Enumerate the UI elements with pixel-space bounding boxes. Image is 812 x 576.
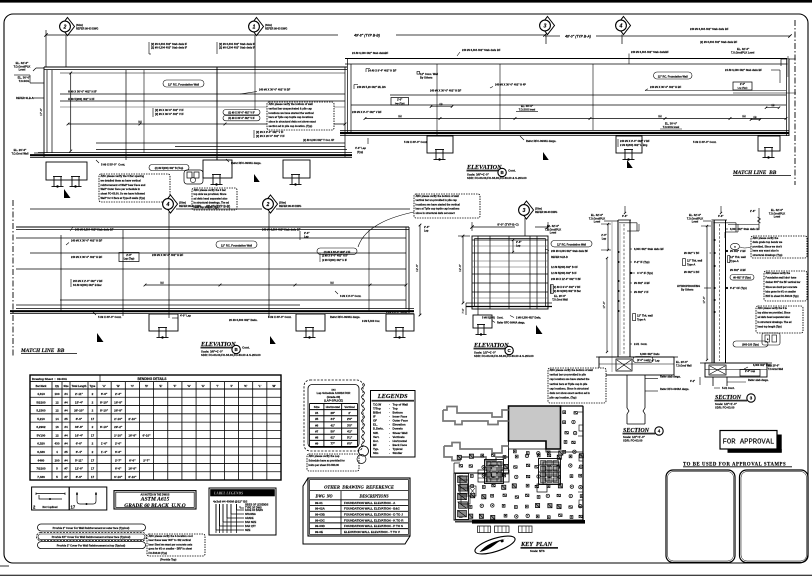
- revision cloud right of lap schedule: [362, 383, 365, 447]
- section4 wall verticals: [617, 220, 619, 357]
- footing M-3: [386, 314, 414, 331]
- svg-text:Since we donti per concrete: Since we donti per concrete: [766, 286, 798, 289]
- svg-text:#4: #4: [64, 409, 68, 413]
- svg-text:6,304 402" Stab dwls BF: 6,304 402" Stab dwls BF: [634, 247, 664, 251]
- svg-text:2 #9 6(200) 402" H Brg: 2 #9 6(200) 402" H Brg: [620, 143, 648, 147]
- svg-text:Sim: Sim: [373, 451, 379, 455]
- wall B2 ticked dim line: [365, 118, 786, 120]
- stamp box left: [666, 470, 735, 563]
- svg-text:5 #9 X 30'-0" Cont.: 5 #9 X 30'-0" Cont.: [268, 315, 292, 319]
- svg-text:BAR SIZE: BAR SIZE: [245, 521, 257, 524]
- svg-text:8'-6": 8'-6": [76, 417, 83, 421]
- svg-text:6,300 402" Dwls: 6,300 402" Dwls: [640, 352, 660, 356]
- svg-text:2'-6": 2'-6": [115, 442, 122, 446]
- svg-text:(Provide Typ): (Provide Typ): [160, 558, 177, 562]
- grid marker 6 mid: [164, 195, 178, 213]
- svg-text:0'-6": 0'-6": [622, 215, 628, 218]
- svg-text:29'-2": 29'-2": [114, 425, 123, 429]
- key plan feature right: [543, 462, 559, 484]
- svg-text:Level: Level: [19, 68, 26, 72]
- svg-text:vertical bar un-provided in pi: vertical bar un-provided in pile: [550, 374, 587, 377]
- svg-text:BENDING DETAILS: BENDING DETAILS: [138, 377, 167, 381]
- svg-text:41": 41": [330, 423, 335, 427]
- svg-text:240 #9 X 30'-0" 402" H BF: 240 #9 X 30'-0" 402" H BF: [430, 89, 462, 93]
- svg-text:12" Thk. wall: 12" Thk. wall: [637, 314, 653, 318]
- svg-text:locations we have started the: locations we have started the vertical: [416, 203, 461, 206]
- elevC footing: [473, 315, 492, 328]
- key plan feature left small: [460, 476, 468, 494]
- svg-text:4'-0" Lap: 4'-0" Lap: [180, 314, 191, 318]
- svg-text:FOUNDATION WALL ELEVATION - P: FOUNDATION WALL ELEVATION - P TO S: [344, 524, 403, 528]
- svg-text:'M': 'M': [272, 384, 276, 388]
- svg-text:[2] #9 6,304 402" Stab dwls IF: [2] #9 6,304 402" Stab dwls IF: [151, 46, 188, 50]
- svg-text:ABC please verify the 0-locati: ABC please verify the 0-location coot: [149, 535, 193, 538]
- svg-text:FO-503.00 (Typ): FO-503.00 (Typ): [149, 552, 168, 555]
- svg-text:4: 4: [619, 24, 623, 30]
- svg-text:-: -: [389, 451, 390, 455]
- svg-text:dwls not show exact section ad: dwls not show exact section ad in: [550, 392, 591, 395]
- svg-text:2'-0": 2'-0": [601, 234, 607, 237]
- svg-text:17: 17: [91, 475, 95, 479]
- svg-text:GRADE: GRADE: [245, 517, 254, 520]
- wall B1 lower rebar lines: [96, 142, 345, 144]
- svg-text:17: 17: [91, 417, 95, 421]
- svg-text:49'-0" (TYP B-B): 49'-0" (TYP B-B): [206, 205, 230, 209]
- svg-text:Level: Level: [774, 216, 781, 219]
- svg-text:26'-10": 26'-10": [74, 409, 84, 413]
- svg-text:DESCRIPTIONS: DESCRIPTIONS: [358, 493, 389, 498]
- svg-text:3: 3: [523, 208, 526, 214]
- lap schedule grid: [310, 403, 358, 405]
- stamp box right: [740, 470, 809, 563]
- section3 small box sketch: [762, 333, 780, 345]
- svg-text:EL. 32'-6": EL. 32'-6": [16, 61, 29, 65]
- svg-text:section ad in pile cap locatio: section ad in pile cap location. (Typ): [269, 124, 313, 128]
- svg-text:49'-8" (TYP B-B): 49'-8" (TYP B-B): [353, 34, 381, 38]
- svg-text:2'-7": 2'-7": [143, 458, 150, 462]
- svg-text:Refer RFC-0946A dwgs.: Refer RFC-0946A dwgs.: [231, 161, 261, 165]
- footing B2-3: [758, 136, 780, 151]
- lap schedule ABC note below: [307, 454, 359, 471]
- svg-text:8'-6": 8'-6": [76, 475, 83, 479]
- svg-text:EL. 32'-6": EL. 32'-6": [689, 213, 702, 217]
- svg-text:EL. 30'-0": EL. 30'-0": [521, 104, 534, 108]
- svg-text:REFER 99-03 DWG: REFER 99-03 DWG: [279, 205, 301, 208]
- svg-text:5 #9 X 30'-0" Cont.: 5 #9 X 30'-0" Cont.: [404, 140, 428, 144]
- footing B1-3: [283, 160, 310, 178]
- svg-text:ad dwls head separated also: ad dwls head separated also: [194, 197, 228, 200]
- top dimension line 49'-8 TYP B-B: [46, 34, 338, 36]
- svg-text:7,436: 7,436: [37, 475, 45, 479]
- svg-text:12" RC. Foundation Wall: 12" RC. Foundation Wall: [168, 82, 199, 86]
- svg-text:6'-4": 6'-4": [76, 450, 83, 454]
- svg-text:Drawing Sheet : 99-03A: Drawing Sheet : 99-03A: [32, 377, 68, 381]
- svg-text:2'-0": 2'-0": [397, 99, 402, 102]
- svg-text:LABEL LEGENDS: LABEL LEGENDS: [213, 492, 243, 496]
- svg-text:(2) #9 6,304 402" Stab dwls BF: (2) #9 6,304 402" Stab dwls BF: [700, 40, 738, 44]
- svg-text:240 #9 X 30'-0" 402" H BF: 240 #9 X 30'-0" 402" H BF: [71, 239, 103, 243]
- ASTM A615 box: [114, 491, 196, 509]
- svg-text:Lap: Lap: [304, 234, 309, 238]
- svg-text:24 #9 6,400 402" Stab dwlsBF: 24 #9 6,400 402" Stab dwlsBF: [352, 51, 389, 55]
- svg-text:240 #9 6,304 402" Stab dwls BF: 240 #9 6,304 402" Stab dwls BF: [75, 228, 114, 232]
- svg-text:240 #9 X 9'-4" 402" V BF: 240 #9 X 9'-4" 402" V BF: [352, 110, 382, 114]
- svg-text:Qty: Qty: [55, 385, 60, 388]
- svg-text:dwlser 304" the BF vertical ba: dwlser 304" the BF vertical bar: [766, 281, 801, 284]
- for approval box: [720, 431, 777, 450]
- key plan outline upper right: [509, 406, 584, 452]
- label legends leader fan: [215, 504, 217, 533]
- svg-text:6'-10": 6'-10": [128, 475, 137, 479]
- svg-text:SIDES OF LEGENDS: SIDES OF LEGENDS: [245, 504, 269, 507]
- svg-text:FOUNDATION WALL ELEVATION - K: FOUNDATION WALL ELEVATION - K TO R: [344, 518, 404, 522]
- svg-text:5,2300: 5,2300: [36, 409, 46, 413]
- svg-text:EL. 32'-6": EL. 32'-6": [737, 47, 750, 51]
- svg-text:5/2100: 5/2100: [36, 400, 46, 404]
- section cut triangle b2: [627, 160, 633, 168]
- svg-text:6 #9 X 9'-0" Cont.: 6 #9 X 9'-0" Cont.: [340, 294, 361, 298]
- svg-text:Total Length: Total Length: [72, 385, 87, 388]
- svg-text:bars at Tpile cap toptie cap l: bars at Tpile cap toptie cap locations: [269, 115, 314, 119]
- svg-text:17'-0": 17'-0": [702, 296, 706, 303]
- wall M horizontal rebar lines: [16, 237, 406, 239]
- section4 2-0 lap oval: [633, 357, 653, 363]
- svg-text:6460: 6460: [38, 458, 45, 462]
- svg-text:12'-0": 12'-0": [458, 264, 462, 272]
- svg-text:7'-0": 7'-0": [461, 308, 465, 313]
- section4 left dim 17: [606, 258, 608, 352]
- elevC inner horizontals: [472, 239, 548, 241]
- svg-text:240 #9 X 30'-0" 402" H BF: 240 #9 X 30'-0" 402" H BF: [259, 88, 291, 92]
- section3 ABC note 1: [751, 236, 807, 258]
- svg-text:bear these wear 304" to 402 ve: bear these wear 304" to 402 vertical: [149, 539, 192, 542]
- svg-text:SPACING: SPACING: [245, 513, 256, 516]
- svg-text:Lap Schedule ACI318 FOR: Lap Schedule ACI318 FOR: [317, 391, 351, 395]
- svg-text:2'-10": 2'-10": [114, 417, 123, 421]
- svg-text:6'-2" OF (Typ): 6'-2" OF (Typ): [730, 286, 747, 290]
- section cut triangle m1: [97, 333, 103, 342]
- svg-text:2'-0": 2'-0": [304, 231, 310, 235]
- key plan dock boxes: [478, 526, 491, 533]
- svg-text:By Others: By Others: [681, 288, 694, 292]
- svg-text:12" RC. Foundation Wall: 12" RC. Foundation Wall: [658, 74, 688, 78]
- svg-text:Wall* Outer Face per schedule: Wall* Outer Face per schedule in: [101, 187, 141, 191]
- section4 wall anchor dots: [618, 251, 620, 253]
- svg-text:FOUNDATION WALL ELEVATION - A: FOUNDATION WALL ELEVATION - A: [344, 501, 396, 505]
- svg-text:4'2": 4'2": [347, 429, 353, 433]
- svg-text:12: 12: [55, 400, 59, 404]
- svg-text:[2] #9 6,304 402" Stab dwls IF: [2] #9 6,304 402" Stab dwls IF: [219, 46, 256, 50]
- svg-text:BRF in sheet FO-503.00 (Typ): BRF in sheet FO-503.00 (Typ): [766, 295, 799, 298]
- svg-text:EL. 32'-6": EL. 32'-6": [547, 224, 560, 228]
- svg-text:2-#1 Cont.: 2-#1 Cont.: [634, 342, 648, 346]
- svg-text:61": 61": [330, 436, 335, 440]
- wall M oval callout cluster: [317, 248, 357, 254]
- svg-text:Type: Type: [90, 385, 96, 388]
- section4 extension grey line: [611, 221, 613, 372]
- svg-text:ABC please verify the bottom o: ABC please verify the bottom of wall: [416, 195, 460, 198]
- svg-text:2'-6": 2'-6": [750, 210, 756, 213]
- svg-text:24 #9 6,400 402" Stab dwls BF: 24 #9 6,400 402" Stab dwls BF: [725, 68, 762, 72]
- svg-text:1'-6": 1'-6": [101, 442, 108, 446]
- svg-text:T.O.Grnd Wall: T.O.Grnd Wall: [768, 369, 783, 371]
- svg-text:17'-0": 17'-0": [602, 301, 606, 308]
- svg-text:Vertical: Vertical: [344, 405, 354, 409]
- svg-text:Refer RFC-0946A dwgs.: Refer RFC-0946A dwgs.: [526, 139, 556, 143]
- svg-text:Size: Size: [314, 405, 320, 409]
- svg-text:#4: #4: [64, 400, 68, 404]
- svg-text:Provide 2" Cover For Wall Rein: Provide 2" Cover For Wall Reinforcement …: [53, 526, 130, 530]
- svg-text:5 #9 X 30'-0" Cont.: 5 #9 X 30'-0" Cont.: [98, 315, 122, 319]
- svg-text:240 #9 X 30'-0" 402" H BF: 240 #9 X 30'-0" 402" H BF: [650, 85, 682, 89]
- other drawing reference 3d box: [303, 478, 410, 544]
- svg-text:4'-0" Lap: 4'-0" Lap: [355, 146, 366, 150]
- svg-text:'J': 'J': [230, 384, 233, 388]
- svg-text:cap locations we have started: cap locations we have started the: [550, 378, 590, 381]
- section cut triangle b1: [543, 152, 549, 160]
- svg-text:T.O.Grnd/PLK Level: T.O.Grnd/PLK Level: [731, 52, 755, 55]
- label legends box: [209, 488, 276, 535]
- svg-text:5 #9 X 30'-0" Cont.: 5 #9 X 30'-0" Cont.: [693, 140, 717, 144]
- svg-text:#9: #9: [315, 442, 319, 446]
- svg-text:goes for #2 or smaller - BRF i: goes for #2 or smaller - BRF in sheet: [149, 548, 193, 551]
- cover note 3: [38, 542, 146, 549]
- key plan dark left strip: [456, 474, 469, 520]
- footing B1-1: [46, 162, 87, 180]
- svg-text:SDR: FO-63.00,FO-63.00,FO-63.0: SDR: FO-63.00,FO-63.00,FO-63.00 & S-203.…: [201, 353, 261, 357]
- svg-text:Provide 3/4" Cover For Wall Re: Provide 3/4" Cover For Wall Reinforcemen…: [52, 535, 131, 539]
- svg-text:6,436: 6,436: [37, 450, 45, 454]
- svg-text:6,320: 6,320: [37, 442, 45, 446]
- svg-text:SDR: FO-63.00: SDR: FO-63.00: [623, 439, 643, 443]
- pile cap sketch note: [184, 170, 203, 184]
- svg-text:vertical bar un-provided is pi: vertical bar un-provided is pile cap: [416, 199, 458, 202]
- section3 left dim 17: [706, 226, 708, 360]
- svg-text:ABC please verify the 0 bar: ABC please verify the 0 bar: [194, 189, 226, 192]
- svg-text:SIZE: SIZE: [245, 529, 251, 532]
- wall B1 bottom heavy lines: [38, 152, 352, 154]
- svg-text:99-03C: 99-03C: [315, 518, 326, 522]
- svg-text:5-#1 Cont.: 5-#1 Cont.: [722, 386, 735, 390]
- svg-text:pile cap location. (Typ): pile cap location. (Typ): [550, 397, 577, 400]
- svg-text:240 #9 X 30'-0" 402" H 4P: 240 #9 X 30'-0" 402" H 4P: [495, 83, 526, 87]
- svg-text:Lap: Lap: [424, 229, 429, 232]
- mid band right dim: [419, 225, 421, 315]
- svg-text:ABC please verify the bottom o: ABC please verify the bottom of wall: [269, 102, 313, 106]
- svg-text:#5: #5: [64, 417, 68, 421]
- svg-text:#4: #4: [315, 411, 319, 415]
- svg-text:2'-3": 2'-3": [115, 392, 122, 396]
- svg-text:5'-11": 5'-11": [75, 458, 84, 462]
- svg-text:T.O.SOG: T.O.SOG: [19, 79, 30, 83]
- svg-text:Type-A: Type-A: [687, 264, 695, 267]
- svg-text:[2] #9 X 39'-6" 402" V IF: [2] #9 X 39'-6" 402" V IF: [155, 108, 184, 112]
- svg-text:Bar Mark: Bar Mark: [36, 385, 47, 388]
- ABC note below band 2: [192, 188, 237, 210]
- elevC right callouts: [551, 241, 592, 247]
- wall M bottom heavy lines: [16, 308, 414, 310]
- svg-text:Wall* for 0 Bars at Type-B wal: Wall* for 0 Bars at Type-B walls (Typ): [101, 196, 146, 200]
- svg-text:12'-6": 12'-6": [415, 264, 419, 272]
- svg-text:8'-0" (TYP B-C): 8'-0" (TYP B-C): [497, 223, 518, 227]
- svg-text:'I': 'I': [216, 384, 218, 388]
- grid marker 5 mid: [264, 195, 278, 213]
- svg-text:Lap: Lap: [516, 244, 521, 247]
- svg-text:bars at Tpile cap toptie cap l: bars at Tpile cap toptie cap locations: [416, 208, 461, 211]
- svg-text:dwls grade top bends we: dwls grade top bends we: [753, 241, 783, 244]
- svg-text:labs gone for #1 or smaller: labs gone for #1 or smaller: [766, 290, 796, 293]
- svg-text:34": 34": [330, 417, 335, 421]
- svg-text:(2) #9 6,304 402" Y Cor. 4P: (2) #9 6,304 402" Y Cor. 4P: [303, 139, 334, 142]
- key plan stage dark features: [485, 460, 504, 484]
- wall B1 rebar dim line with ticks: [68, 123, 345, 125]
- sheet bottom scan line: [0, 574, 812, 576]
- vertical dim 17'-0 left: [70, 73, 72, 151]
- svg-text:ABC please verify the: ABC please verify the: [766, 272, 791, 275]
- svg-text:ad dwls head separated also: ad dwls head separated also: [758, 316, 791, 319]
- svg-text:'K': 'K': [244, 384, 248, 388]
- svg-text:(3) #9 X 30'-0" 402" V IF: (3) #9 X 30'-0" 402" V IF: [228, 117, 255, 120]
- wall M outline: [16, 226, 409, 228]
- svg-text:#6: #6: [315, 423, 319, 427]
- elevC inner horizontals extra: [472, 245, 548, 247]
- svg-text:16: 16: [55, 425, 59, 429]
- svg-text:(Sim): (Sim): [265, 23, 272, 27]
- svg-text:Refer RFC-0946A dwgs.: Refer RFC-0946A dwgs.: [330, 315, 360, 319]
- svg-text:9 #9 5,400 Cor.: 9 #9 5,400 Cor.: [362, 319, 380, 323]
- svg-text:17: 17: [91, 467, 95, 471]
- svg-text:EL. 20'-6": EL. 20'-6": [676, 360, 689, 364]
- svg-text:2: 2: [63, 25, 67, 31]
- footing B1-2: [203, 160, 232, 178]
- elevC top dim: [472, 226, 515, 228]
- svg-text:0'-6": 0'-6": [718, 215, 724, 218]
- svg-text:6'-6": 6'-6": [115, 467, 122, 471]
- svg-text:REFER 99-03 DWG: REFER 99-03 DWG: [535, 211, 557, 214]
- svg-text:20 #9 6,300 402" Dwls.: 20 #9 6,300 402" Dwls.: [229, 318, 258, 322]
- svg-text:EL. 20'-6": EL. 20'-6": [768, 365, 780, 368]
- svg-text:8'-10": 8'-10": [100, 400, 109, 404]
- svg-text:GRADE 60 BLACK U.N.O: GRADE 60 BLACK U.N.O: [124, 503, 186, 509]
- svg-text:sheet FO-63.00. So we have fol: sheet FO-63.00. So we have followed: [101, 192, 146, 196]
- svg-text:16'-4": 16'-4": [75, 433, 84, 437]
- section3 oval 900-100: [733, 341, 768, 347]
- grid marker 3: [541, 17, 555, 35]
- grid marker 3 elevC: [520, 201, 534, 219]
- bent bar type 17 box: [69, 487, 107, 510]
- svg-text:Lap (Typ): Lap (Typ): [738, 88, 748, 90]
- svg-text:Lap: Lap: [602, 238, 607, 241]
- svg-text:16'-8": 16'-8": [128, 433, 137, 437]
- svg-text:(a): (a): [754, 116, 757, 119]
- callout 2-0 lap typ box B2: [391, 98, 409, 106]
- svg-text:'H': 'H': [201, 384, 205, 388]
- section3 ABC note 3: [756, 306, 803, 333]
- section cut triangle a1: [64, 189, 70, 198]
- svg-text:Schedule have as provided for: Schedule have as provided for: [309, 459, 345, 462]
- svg-text:24 #9 X 9'-4" 402" H BF: 24 #9 X 9'-4" 402" H BF: [368, 69, 397, 73]
- svg-text:8'-10": 8'-10": [100, 425, 109, 429]
- svg-text:#4: #4: [64, 425, 68, 429]
- svg-text:6 #9 X 9'-0" Cont.: 6 #9 X 9'-0" Cont.: [386, 310, 407, 314]
- svg-text:240 #9 5,20 402" ML BS: 240 #9 5,20 402" ML BS: [357, 85, 386, 89]
- company logo ellipse: [473, 532, 517, 557]
- svg-text:since in structural dwls not s: since in structural dwls not show exact: [269, 120, 317, 124]
- svg-text:Similar: Similar: [393, 451, 404, 455]
- svg-text:(2'-0" Lap): (2'-0" Lap): [637, 359, 649, 362]
- section3 footing: [700, 362, 772, 364]
- svg-text:12" Thk. wall: 12" Thk. wall: [687, 260, 703, 263]
- svg-text:#9 402" H BF: #9 402" H BF: [684, 271, 700, 274]
- wall M gridline verticals: [168, 227, 170, 318]
- section3 ABC note 2: [764, 271, 807, 301]
- svg-text:(a): (a): [160, 281, 163, 285]
- svg-text:16'-8": 16'-8": [128, 467, 137, 471]
- svg-text:structural drawings (Typ): structural drawings (Typ): [753, 254, 783, 257]
- svg-text:Scale: NTS: Scale: NTS: [530, 549, 545, 553]
- svg-text:16'-8": 16'-8": [114, 400, 123, 404]
- svg-text:12 #9 5(200) 402" B OF: 12 #9 5(200) 402" B OF: [551, 266, 578, 269]
- svg-text:6'5": 6'5": [347, 442, 353, 446]
- wall B2 bottom heavy lines: [340, 129, 789, 131]
- svg-text:2'-0": 2'-0": [740, 83, 745, 86]
- svg-text:'E': 'E': [159, 384, 163, 388]
- svg-text:12'-6": 12'-6": [75, 467, 84, 471]
- svg-text:12: 12: [55, 409, 59, 413]
- svg-text:EL. 20'-6": EL. 20'-6": [554, 294, 567, 298]
- svg-text:C'-0" IF (Typ): C'-0" IF (Typ): [637, 271, 653, 275]
- svg-text:2'-10": 2'-10": [128, 417, 137, 421]
- svg-text:6'-10": 6'-10": [142, 433, 151, 437]
- key plan left corridor shapes: [443, 407, 509, 425]
- svg-text:FOUNDATION WALL ELEVATION - D: FOUNDATION WALL ELEVATION - D TO J: [344, 513, 403, 517]
- svg-text:locations we have started the: locations we have started the vertical: [269, 111, 314, 115]
- svg-text:17'-0": 17'-0": [39, 108, 43, 116]
- svg-text:3'5": 3'5": [347, 423, 353, 427]
- svg-text:5 #9 X 50'-0" Cont.: 5 #9 X 50'-0" Cont.: [101, 163, 125, 167]
- ABC note below band 1: [99, 174, 170, 202]
- svg-text:7/2100: 7/2100: [36, 467, 46, 471]
- section cut triangle m2: [270, 336, 276, 344]
- svg-text:(2) #9 X 9'-0" 402" V BF: (2) #9 X 9'-0" 402" V BF: [553, 286, 581, 289]
- svg-text:2: 2: [266, 202, 270, 208]
- ABC note top band: [267, 102, 334, 130]
- svg-text:#4: #4: [64, 433, 68, 437]
- svg-text:'G': 'G': [187, 384, 191, 388]
- svg-text:2'-6" Lap: 2'-6" Lap: [649, 360, 660, 363]
- svg-text:'A': 'A': [102, 384, 106, 388]
- svg-text:top side we provided. Since: top side we provided. Since: [194, 193, 228, 196]
- svg-text:17: 17: [71, 505, 76, 510]
- left margin tick: [0, 565, 9, 567]
- svg-text:Refer slab dwgs.: Refer slab dwgs.: [660, 375, 681, 379]
- svg-text:2 #9 6,300 402" Dwls.: 2 #9 6,300 402" Dwls.: [516, 317, 541, 320]
- svg-text:SDR: FO-63.00,FO-63.00,FO-63.0: SDR: FO-63.00,FO-63.00,FO-63.00 & S-203.…: [474, 354, 534, 358]
- svg-text:top sides we provided. Since: top sides we provided. Since: [758, 312, 791, 315]
- section4 12 thk wall label: [633, 314, 636, 321]
- svg-text:bolts per sheet FO-503.00: bolts per sheet FO-503.00: [309, 464, 340, 467]
- svg-text:Refer RFC-0946A dwgs.: Refer RFC-0946A dwgs.: [497, 322, 525, 325]
- wall M ticked dim: [145, 284, 406, 286]
- svg-text:[2] #9 6,304 402" Stab dwls IF: [2] #9 6,304 402" Stab dwls IF: [151, 42, 188, 46]
- svg-text:#9 402" IF (Typ): #9 402" IF (Typ): [733, 277, 751, 280]
- svg-text:Lap (Typ): Lap (Typ): [124, 257, 135, 260]
- svg-text:'D': 'D': [145, 384, 149, 388]
- match line BB left dash: [12, 200, 14, 357]
- svg-text:99-02A: 99-02A: [315, 507, 326, 511]
- svg-text:in structural drawings. The ad: in structural drawings. The ad: [758, 321, 793, 324]
- svg-text:Horizontal: Horizontal: [326, 405, 340, 409]
